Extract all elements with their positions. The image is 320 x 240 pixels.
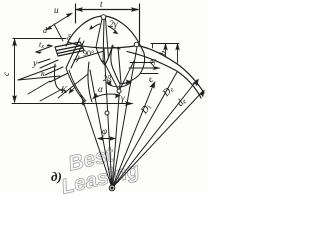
center point dot [111, 187, 114, 190]
2gamma arc arrow right [108, 26, 117, 33]
fan line f3 [104, 48, 112, 188]
stray tooth edge upper left [54, 24, 63, 41]
tooth1 rake face [66, 38, 80, 68]
2beta leg left [103, 60, 119, 91]
Di arrowhead [150, 82, 156, 89]
u direction arrow line [47, 14, 71, 29]
gash fan line from 2g vertex 1 [96, 19, 102, 47]
lower diagonal 1 [28, 81, 50, 94]
svg-text:e: e [145, 75, 155, 84]
2beta leg right [119, 61, 134, 91]
horizontal ref line mid with arrow [129, 67, 158, 69]
svg-text:α: α [98, 84, 103, 94]
node circle on rim [134, 42, 139, 47]
svg-text:2β: 2β [103, 74, 111, 83]
svg-text:tx: tx [39, 40, 44, 50]
alpha arc [94, 94, 119, 98]
right dims tick [152, 44, 154, 49]
tooth1 land band left edge [55, 47, 58, 56]
tooth1 right bottom flank [88, 62, 92, 102]
svg-text:de: de [175, 95, 189, 108]
svg-text:у: у [32, 59, 38, 69]
svg-text:B1: B1 [146, 55, 160, 68]
tooth1 rake face second line [71, 41, 84, 68]
tooth2 land notch [113, 47, 120, 49]
horizontal ref line upper [130, 62, 153, 64]
relief hatch long lower [58, 74, 88, 98]
left dimension c vertical line [14, 40, 16, 101]
tooth2 left flank [111, 45, 120, 84]
relief hatch 1 [40, 60, 58, 68]
svg-text:2γ: 2γ [109, 20, 118, 30]
svg-text:δ: δ [67, 33, 71, 42]
c top arrow [13, 39, 17, 46]
f1 arrowhead at bottom line [82, 100, 85, 106]
back curve of tooth big curve left branch [66, 16, 103, 46]
u arrow head top [66, 13, 73, 17]
De arrowhead [193, 79, 199, 86]
bottom horizontal line [12, 103, 131, 105]
svg-text:u: u [54, 5, 59, 15]
relief wedge lower line [18, 76, 60, 80]
right angle arc at rake root [76, 56, 79, 62]
tooth1 land band line 4 [58, 51, 84, 57]
rim inner arc lower band [127, 52, 201, 99]
u arrow head bottom [46, 26, 53, 30]
dimension t top line [76, 9, 138, 11]
de arrowhead [199, 90, 205, 97]
tangent line under 90 [74, 51, 104, 60]
tooth1 land band line 3 [57, 48, 83, 54]
v dim B1 [177, 44, 179, 63]
svg-text:к: к [41, 69, 45, 78]
svg-text:K: K [60, 85, 68, 95]
previous tooth flank hook [54, 64, 66, 91]
c bottom arrow [13, 96, 17, 103]
2gamma arc arrow left [91, 24, 100, 29]
tooth1 land band right edge [80, 42, 84, 50]
extension line right of t down to rim circle [139, 4, 141, 42]
relief wedge upper line [18, 66, 56, 80]
fan line f4 to tooth2 tip [112, 84, 120, 188]
node circle 2beta vertex [117, 89, 121, 93]
svg-text:φ: φ [102, 126, 107, 136]
fan line f5 to rim circle [112, 47, 137, 188]
K arrow leader [70, 87, 75, 92]
tooth1 land band line 1 [55, 42, 80, 47]
lower diagonal 2 [40, 89, 62, 101]
De radial line [112, 80, 197, 188]
bottom line right arrow [125, 102, 133, 106]
tooth2 inner flank line [118, 47, 121, 83]
tooth2 right flank from big curve to tip [120, 53, 145, 84]
svg-text:90°: 90° [83, 49, 94, 58]
extension line left of t [75, 4, 77, 23]
svg-text:t: t [100, 0, 103, 9]
back curve right branch descending to rim [105, 16, 144, 53]
svg-text:h: h [157, 49, 168, 56]
y leader line [38, 59, 50, 63]
svg-text:c: c [1, 72, 11, 76]
watermark Best Leasing [54, 138, 141, 199]
svg-text:d: d [43, 26, 48, 35]
de radial line [112, 91, 203, 188]
horizontal ref line lower [141, 73, 158, 75]
svg-text:γ: γ [121, 93, 125, 103]
gash fan line 2 [103, 19, 104, 62]
node circle on alpha line [105, 111, 109, 115]
relief hatch 2 [45, 67, 63, 75]
relief hatch 3 [50, 73, 68, 82]
dimension t right arrow [132, 8, 139, 12]
tooth1 left bottom flank inner [69, 70, 86, 101]
right dims top line [151, 43, 179, 45]
gash fan line 3 [106, 19, 109, 58]
svg-text:д): д) [51, 169, 62, 184]
center point circle [109, 185, 115, 191]
node circle top 2gamma vertex [101, 15, 106, 20]
dimension t left arrow [76, 8, 83, 12]
rim outer arc upper band through circle [68, 42, 204, 93]
fan line f6 Di radial [112, 83, 154, 188]
top left horizontal line [13, 38, 66, 40]
svg-text:Di: Di [138, 102, 153, 117]
2beta arc [108, 83, 130, 87]
fan line f1 [81, 95, 112, 188]
v dim h [165, 44, 167, 57]
fan line f2 [90, 70, 112, 188]
gash vertex between teeth right side [105, 46, 112, 65]
phi double arrow [99, 138, 114, 140]
tx small dimension line [36, 46, 52, 52]
fan line f7 [112, 72, 177, 188]
tooth1 left bottom flank [66, 68, 85, 102]
gash vertex between teeth left side [96, 47, 105, 65]
tooth1 land band line 2 [56, 46, 82, 51]
